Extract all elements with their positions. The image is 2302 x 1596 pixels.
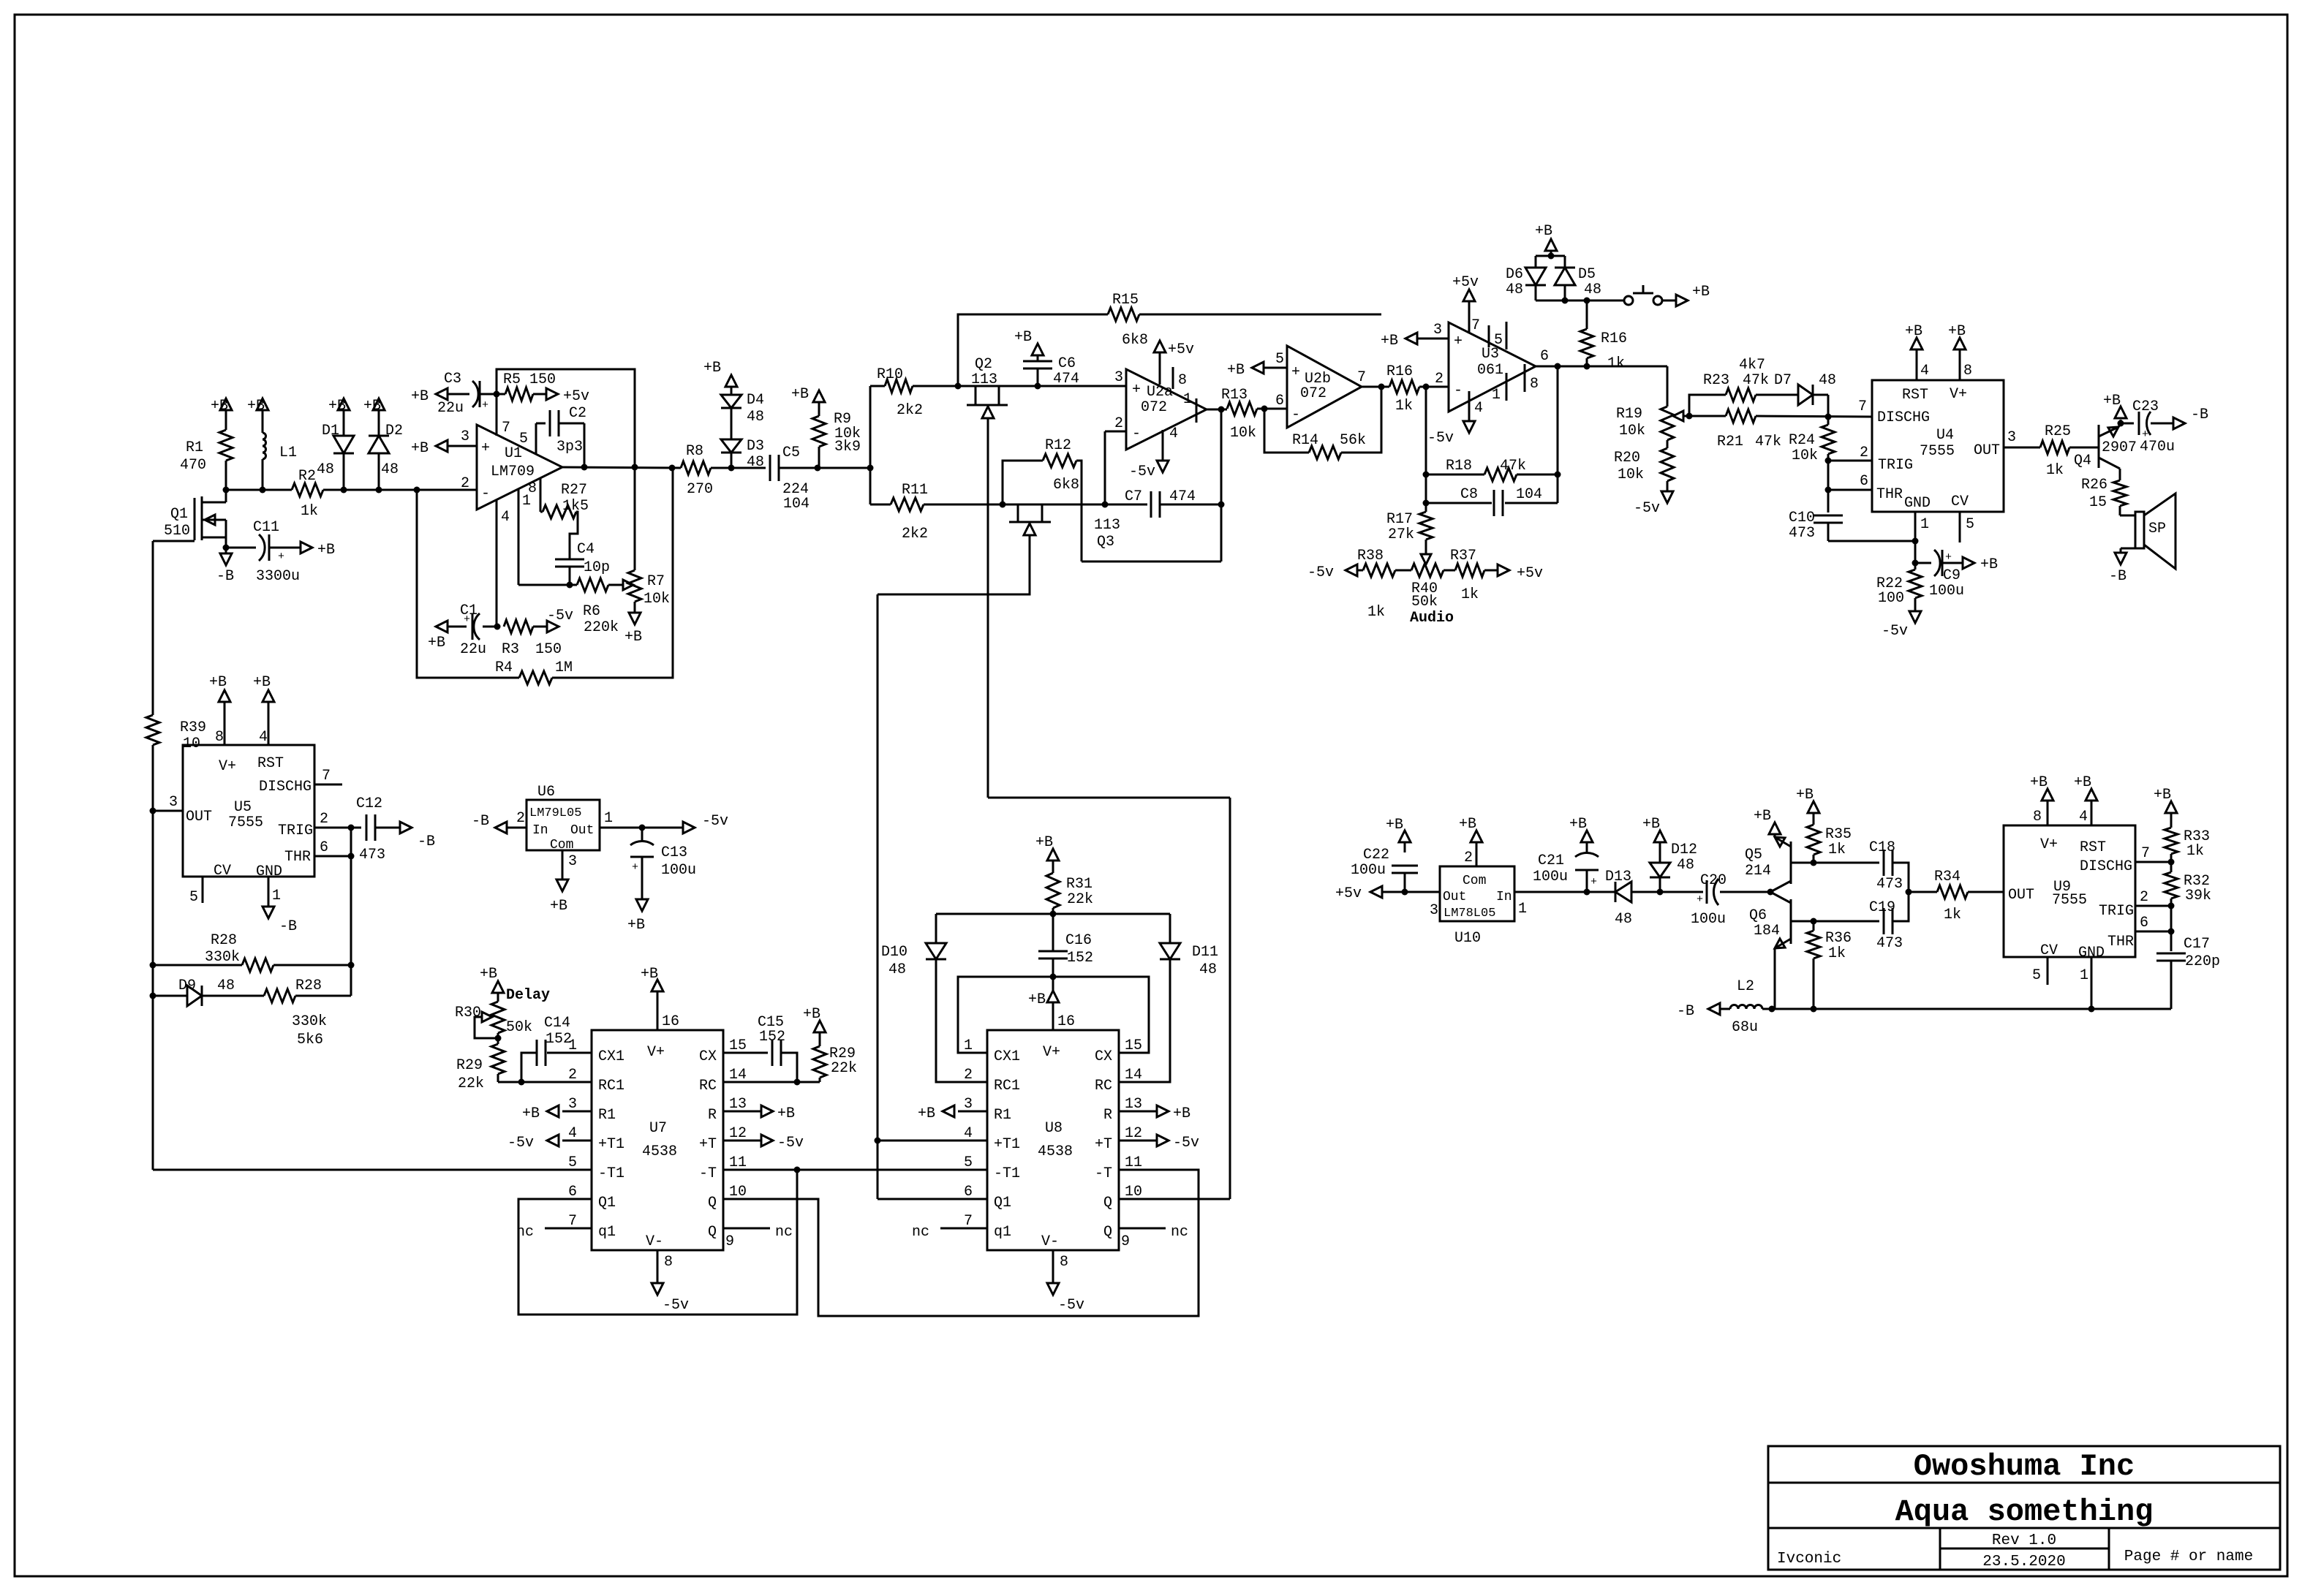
svg-text:7: 7 [1858, 398, 1867, 415]
svg-text:Q4: Q4 [2074, 453, 2091, 469]
svg-text:1k: 1k [1828, 842, 1846, 858]
svg-text:7555: 7555 [2052, 892, 2087, 909]
pin 1 tick U1 [518, 489, 531, 585]
svg-text:113: 113 [971, 371, 997, 388]
svg-text:4k7: 4k7 [1739, 357, 1765, 374]
svg-text:CX: CX [1095, 1048, 1112, 1065]
resistor R31 [1046, 861, 1093, 914]
resistor R32 [2165, 862, 2211, 906]
svg-text:48: 48 [381, 461, 399, 478]
svg-text:U2a: U2a [1147, 384, 1173, 401]
wire Q6 collector [1791, 920, 1879, 923]
svg-text:8: 8 [1963, 363, 1972, 379]
svg-text:Q2: Q2 [975, 356, 992, 373]
power flag +B (R9) [791, 386, 825, 416]
svg-text:+B: +B [211, 398, 228, 415]
transistor Q5 [1745, 834, 1791, 892]
svg-text:-B: -B [2109, 568, 2126, 585]
wire TRIG to THR [1827, 461, 1830, 490]
svg-text:-T: -T [1095, 1165, 1112, 1182]
svg-text:50k: 50k [506, 1019, 532, 1036]
svg-text:R6: R6 [583, 603, 600, 620]
resistor R22 [1876, 563, 1922, 611]
svg-text:+B: +B [411, 388, 429, 405]
svg-text:48: 48 [1199, 961, 1217, 978]
diode pair +B flag [1535, 223, 1557, 256]
power flag +B (U6 Com) [550, 880, 568, 915]
capacitor C11 [226, 519, 301, 585]
svg-text:+B: +B [791, 386, 809, 403]
junction D12 node [1657, 889, 1664, 896]
wire CX loop U8 [958, 977, 1149, 1053]
svg-text:R1: R1 [598, 1107, 616, 1124]
svg-text:U4: U4 [1936, 427, 1954, 444]
diode D4 [721, 392, 764, 439]
svg-text:R29: R29 [456, 1057, 483, 1074]
svg-text:+B: +B [428, 635, 445, 651]
svg-text:R25: R25 [2045, 423, 2071, 440]
junction C8 left [1423, 500, 1430, 507]
power flag +B (U4 pin4) [1905, 323, 1929, 380]
power flag -B (Q1) [216, 548, 234, 585]
diode D1 [317, 423, 354, 478]
resistor R28 [153, 932, 351, 972]
svg-text:104: 104 [783, 496, 810, 513]
svg-text:510: 510 [164, 523, 190, 540]
svg-text:nc: nc [1171, 1224, 1188, 1241]
svg-text:2: 2 [320, 811, 328, 828]
svg-text:6: 6 [320, 839, 328, 856]
svg-text:5: 5 [1494, 332, 1503, 349]
svg-text:-: - [1132, 426, 1141, 442]
IC U9 7555 [2004, 825, 2135, 961]
svg-text:+B: +B [2103, 393, 2121, 409]
diode D12 [1650, 842, 1697, 892]
svg-text:+B: +B [1948, 323, 1966, 340]
svg-text:+: + [278, 551, 284, 563]
wire D1 down [343, 453, 345, 490]
title date text [1982, 1554, 2065, 1570]
svg-text:220k: 220k [584, 619, 619, 636]
title page text [2124, 1548, 2253, 1565]
power flag +B (L1) [247, 398, 268, 433]
wire U1 pin7 drop [496, 394, 498, 409]
capacitor C18 [1869, 839, 1909, 893]
svg-text:48: 48 [1615, 911, 1632, 928]
junction C4 R6 [567, 582, 573, 589]
svg-text:4538: 4538 [642, 1143, 677, 1160]
pin 7 stub U5 DISCHG [314, 768, 342, 784]
svg-text:2: 2 [1860, 445, 1868, 461]
wire U3 pin3 [1417, 338, 1449, 340]
diode D6 [1506, 266, 1546, 298]
resistor R11 [870, 482, 1105, 542]
junction Q1 loop to -T1 [794, 1167, 801, 1173]
svg-text:-5v: -5v [1634, 500, 1660, 517]
wire U10 In row [1514, 891, 1615, 893]
resistor R10 [870, 366, 958, 419]
junction C7 left [1102, 502, 1109, 508]
svg-text:D2: D2 [385, 423, 403, 439]
svg-text:104: 104 [1516, 486, 1542, 503]
pin 8 tick U3 [1525, 364, 1539, 393]
power flag +B (C13) [627, 899, 648, 934]
svg-text:3: 3 [1430, 902, 1438, 919]
svg-text:27k: 27k [1388, 526, 1414, 543]
svg-text:7: 7 [322, 768, 331, 784]
resistor R21 [1689, 409, 1872, 450]
capacitor C3 [437, 371, 497, 417]
svg-text:+B: +B [703, 360, 721, 377]
junction R33 R32 [2168, 859, 2175, 866]
wire R6 arrow to R7 [608, 580, 633, 590]
resistor R6 [518, 578, 619, 636]
svg-text:V+: V+ [2040, 836, 2058, 853]
svg-text:22u: 22u [437, 400, 464, 417]
pin 5 tick U3 [1494, 322, 1506, 349]
power flag +5v (R5) [546, 388, 589, 405]
svg-text:In: In [532, 823, 548, 838]
power flag +B (C11) [301, 542, 335, 559]
power flag +B (R35) [1796, 787, 1819, 813]
resistor R5 [497, 371, 556, 401]
svg-text:C22: C22 [1363, 847, 1389, 863]
wire U1 pin3 [448, 445, 477, 447]
svg-text:-5v: -5v [663, 1297, 689, 1314]
resistor R18 [1426, 458, 1558, 481]
power flag -5v (U6) [683, 813, 728, 833]
wire U4 GND pin1 [1915, 512, 1929, 541]
IC U5 7555 [183, 745, 314, 880]
svg-text:68u: 68u [1732, 1019, 1758, 1036]
svg-text:474: 474 [1169, 488, 1196, 505]
svg-text:-B: -B [279, 918, 297, 935]
svg-text:q1: q1 [994, 1224, 1011, 1241]
pin 7 tick U1 [497, 409, 510, 436]
svg-text:R13: R13 [1221, 387, 1248, 404]
svg-text:470: 470 [180, 457, 206, 474]
junction C3 R5 [494, 391, 500, 398]
svg-text:48: 48 [1506, 281, 1523, 298]
svg-text:10k: 10k [1792, 447, 1818, 464]
power flag +B (U7 V+) [641, 966, 663, 1003]
svg-text:1: 1 [1920, 516, 1929, 533]
wire U3 out column [1557, 366, 1559, 503]
svg-text:10p: 10p [584, 559, 610, 576]
svg-text:U7: U7 [649, 1120, 667, 1137]
svg-text:RC: RC [699, 1078, 717, 1094]
svg-text:+5v: +5v [1452, 274, 1479, 291]
svg-text:CV: CV [2040, 942, 2058, 959]
svg-text:072: 072 [1141, 399, 1167, 416]
svg-text:16: 16 [662, 1013, 679, 1030]
power flag +B (D4) [703, 360, 737, 395]
power flag +B (U10 pin2) [1459, 816, 1482, 842]
wire R15 feedback top [958, 314, 1381, 386]
wire R1 to input node [225, 461, 227, 490]
svg-text:3: 3 [568, 853, 577, 870]
title rev text [1992, 1532, 2056, 1549]
wire U1 output [562, 467, 681, 468]
wire diode pair bottom rail [1536, 285, 1624, 300]
resistor R14 [1264, 387, 1381, 459]
svg-text:061: 061 [1477, 362, 1503, 379]
transistor Q4 [2074, 423, 2137, 480]
diode D3 [721, 438, 764, 471]
op-amp U3 [1433, 322, 1536, 412]
junction C6 node [1035, 383, 1041, 390]
wire U9 DISCHG [2135, 845, 2171, 862]
IC U10 LM78L05 [1430, 866, 1527, 947]
capacitor C10 [1789, 490, 1915, 542]
wire R17 arrow to R40 [1421, 554, 1431, 564]
power flag +B (U1 pin3) [411, 440, 448, 457]
svg-text:+: + [632, 861, 638, 874]
svg-text:R11: R11 [902, 482, 928, 499]
power flag +B (C3) [411, 388, 448, 405]
svg-text:+B: +B [918, 1105, 935, 1122]
svg-text:-5v: -5v [777, 1135, 804, 1151]
junction R18 left [1423, 472, 1430, 478]
svg-text:R20: R20 [1614, 450, 1640, 466]
svg-text:48: 48 [317, 461, 334, 478]
power flag +5v (U2a) [1154, 341, 1194, 385]
svg-text:Out: Out [570, 823, 594, 838]
svg-text:+B: +B [1535, 223, 1552, 240]
svg-text:+B: +B [1386, 817, 1403, 833]
svg-text:C18: C18 [1869, 839, 1895, 856]
power flag +B (C21) [1569, 816, 1593, 842]
svg-text:473: 473 [1876, 935, 1903, 952]
svg-text:Page # or name: Page # or name [2124, 1548, 2253, 1565]
svg-text:2: 2 [1464, 850, 1473, 866]
pushbutton switch S1 [1624, 285, 1676, 305]
power flag +B (U7 R) [752, 1105, 795, 1122]
power flag +B (C1) [428, 621, 448, 651]
power flag +B (R31) [1035, 834, 1059, 861]
junction C15 RC [794, 1079, 801, 1086]
svg-text:1k: 1k [1607, 355, 1625, 372]
wire U5 TRIG pin2 [314, 811, 361, 828]
svg-text:+T: +T [699, 1136, 717, 1153]
svg-text:3: 3 [169, 794, 178, 811]
svg-text:THR: THR [284, 849, 311, 866]
svg-text:48: 48 [1677, 857, 1694, 874]
wire left rail [152, 745, 154, 1170]
svg-text:DISCHG: DISCHG [2080, 858, 2132, 875]
svg-text:+B: +B [2154, 787, 2171, 803]
svg-text:Com: Com [1463, 874, 1486, 888]
svg-text:4: 4 [259, 729, 268, 746]
power flag +B (D2) [363, 398, 385, 436]
svg-text:C16: C16 [1065, 932, 1092, 949]
svg-text:270: 270 [687, 481, 713, 498]
wire L1 down [262, 459, 264, 490]
resistor R36 [1807, 921, 1852, 1009]
svg-text:C17: C17 [2184, 936, 2210, 953]
junction R28 row [150, 962, 355, 969]
svg-text:Ivconic: Ivconic [1777, 1551, 1841, 1567]
capacitor C23 [2121, 398, 2175, 455]
svg-text:C14: C14 [544, 1015, 570, 1032]
op-amp U2a [1114, 369, 1207, 450]
svg-text:1k: 1k [1461, 586, 1479, 603]
svg-text:+B: +B [253, 674, 271, 691]
resistor R8 [681, 443, 731, 498]
resistor R29 (U7) [456, 1033, 505, 1092]
junction C14 RC1 [518, 1079, 525, 1086]
svg-text:1: 1 [1518, 901, 1527, 918]
resistor R34 [1909, 869, 2004, 923]
svg-text:+: + [1697, 893, 1703, 906]
svg-text:+B: +B [777, 1105, 795, 1122]
junction diode pair top [1548, 253, 1555, 260]
svg-text:R14: R14 [1292, 432, 1318, 449]
svg-text:R12: R12 [1045, 437, 1071, 454]
svg-text:6: 6 [1860, 473, 1868, 490]
svg-text:3: 3 [461, 428, 469, 445]
IC U6 LM79L05 [527, 784, 600, 852]
svg-text:+B: +B [1381, 333, 1398, 349]
wire -T1 row to U7 [153, 1169, 563, 1171]
svg-text:473: 473 [1789, 525, 1815, 542]
power flag -5v (R20) [1634, 491, 1673, 517]
svg-text:R1: R1 [994, 1107, 1011, 1124]
op-amp U1 [461, 425, 562, 510]
svg-text:+B: +B [550, 898, 567, 915]
pin 5 stub U9 CV [2032, 956, 2048, 985]
power flag +B (R1) [211, 398, 232, 430]
op-amp U2b [1275, 346, 1362, 428]
resistor R37 [1450, 548, 1498, 603]
svg-text:THR: THR [2107, 934, 2134, 950]
diode D7 [1774, 372, 1836, 417]
svg-text:4: 4 [1920, 363, 1929, 379]
svg-text:+B: +B [317, 542, 335, 559]
svg-text:3: 3 [1433, 322, 1442, 339]
svg-text:Q3: Q3 [1097, 534, 1114, 551]
wire U5 THR pin6 [314, 839, 351, 856]
svg-text:THR: THR [1876, 486, 1903, 503]
junction U2b output [1378, 384, 1385, 390]
svg-text:TRIG: TRIG [278, 822, 313, 839]
power flag +B (U8 R1) [918, 1105, 954, 1122]
svg-text:7: 7 [1471, 317, 1480, 334]
wire THR column [350, 828, 352, 996]
power flag +B (R33) [2154, 787, 2177, 813]
wire U4 OUT [2004, 429, 2040, 447]
junction Q2 drain node [955, 383, 962, 390]
svg-text:Q1: Q1 [598, 1195, 616, 1211]
power flag +B (U3 pin3) [1381, 333, 1417, 349]
svg-text:DISCHG: DISCHG [259, 779, 312, 795]
junction Q1 source [223, 545, 230, 551]
capacitor C4 [555, 541, 610, 585]
wire U7 Q to U8 -T [752, 1170, 1199, 1316]
power flag -5v (U3) [1427, 421, 1475, 447]
svg-text:V-: V- [646, 1233, 663, 1250]
svg-text:LM79L05: LM79L05 [529, 806, 581, 820]
power flag +B (U5 pin8) [209, 674, 230, 746]
power flag -5v (R3) [547, 608, 573, 632]
wire compensation frame [497, 369, 635, 467]
resistor R23 [1689, 357, 1798, 416]
svg-text:7555: 7555 [1920, 443, 1955, 460]
wire input main row [226, 489, 292, 491]
junction D3 node [728, 465, 735, 472]
svg-text:+B: +B [1227, 362, 1245, 379]
svg-text:R39: R39 [180, 719, 206, 736]
junction R34 node [1906, 889, 1912, 896]
svg-text:+B: +B [627, 917, 645, 934]
svg-text:R4: R4 [495, 659, 513, 676]
IC U4 7555 [1872, 380, 2004, 512]
svg-text:+B: +B [1459, 816, 1476, 833]
junction U5 OUT [150, 808, 156, 814]
svg-text:5k6: 5k6 [297, 1032, 323, 1048]
pin 5 stub U5 CV [189, 877, 203, 906]
svg-text:+5v: +5v [563, 388, 589, 405]
junction DISCHG node [1825, 414, 1832, 420]
svg-text:5: 5 [1275, 351, 1284, 368]
svg-text:48: 48 [1819, 372, 1836, 389]
svg-text:072: 072 [1300, 385, 1327, 402]
wire C5 to R10 R11 node [818, 467, 870, 469]
nc stub U8 q1 [912, 1224, 958, 1241]
power flag +B (D12) [1642, 816, 1666, 842]
junction R35 node [1811, 860, 1817, 866]
svg-text:-T1: -T1 [598, 1165, 624, 1182]
junction THR column [348, 853, 355, 860]
wire U8 +T1 rail junction [875, 1138, 959, 1144]
svg-text:-B: -B [1677, 1003, 1694, 1020]
svg-text:+B: +B [522, 1105, 540, 1122]
capacitor C21 [1533, 842, 1599, 892]
pin 5 stub U4 CV [1960, 512, 1974, 542]
svg-text:C12: C12 [356, 795, 382, 812]
wire U2a output [1207, 409, 1227, 411]
svg-text:1k: 1k [2046, 462, 2064, 479]
svg-text:+B: +B [2074, 774, 2091, 791]
svg-text:152: 152 [1067, 950, 1093, 967]
svg-text:-5v: -5v [1427, 430, 1454, 447]
wire U9 THR [2135, 915, 2171, 931]
svg-text:2907: 2907 [2102, 439, 2137, 456]
pin 1 tick U2a [1183, 391, 1196, 423]
power flag -B (C12) [400, 822, 435, 850]
svg-text:3p3: 3p3 [556, 439, 583, 455]
power flag -B (SP) [2109, 553, 2126, 585]
svg-text:R23: R23 [1703, 372, 1729, 389]
power flag -5v (R38) [1307, 564, 1363, 581]
svg-text:R26: R26 [2081, 477, 2107, 493]
svg-text:-B: -B [2191, 406, 2208, 423]
svg-text:R15: R15 [1112, 292, 1139, 309]
capacitor C13 [630, 828, 696, 899]
pin 2 stub U10 [1464, 842, 1476, 866]
svg-text:6: 6 [1540, 348, 1549, 365]
svg-text:nc: nc [912, 1224, 929, 1241]
svg-text:+: + [1132, 382, 1141, 398]
svg-text:+5v: +5v [1517, 565, 1543, 582]
junction Q5 Q6 base [1767, 889, 1774, 896]
transistor Q1 [153, 490, 226, 548]
svg-text:+: + [1945, 551, 1952, 564]
svg-text:+: + [1454, 333, 1463, 350]
svg-text:+B: +B [247, 398, 265, 415]
svg-text:+B: +B [480, 966, 497, 983]
resistor R35 [1807, 813, 1852, 863]
